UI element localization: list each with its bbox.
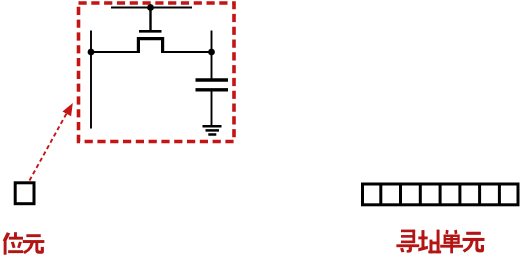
wire: word line (top horizontal) bbox=[111, 7, 192, 9]
glyph 位 bbox=[3, 232, 23, 255]
wire: storage node vertical bbox=[211, 31, 213, 79]
node: storage junction dot bbox=[208, 49, 215, 56]
bit cell square bbox=[15, 183, 34, 204]
capacitor C1 bottom plate bbox=[196, 88, 229, 91]
glyph 寻 bbox=[396, 230, 419, 253]
callout arrow shaft from bit cell to DRAM cell bbox=[30, 114, 67, 181]
glyph 元 bbox=[23, 234, 45, 254]
transistor Q1 gate bar bbox=[139, 30, 162, 33]
DRAM cell dashed enclosure box bbox=[79, 3, 235, 142]
node: bit line junction dot bbox=[88, 49, 95, 56]
label 寻址单元 (addressing unit) bbox=[396, 230, 484, 254]
callout arrow head bbox=[63, 103, 73, 116]
wire: drain to storage node bbox=[161, 51, 212, 53]
wire: capacitor to ground bbox=[211, 91, 213, 126]
label 位元 (bit cell) bbox=[3, 232, 45, 255]
node: word line junction dot bbox=[147, 4, 154, 11]
wire: source to bit line bbox=[91, 51, 140, 53]
ground bbox=[203, 126, 222, 134]
glyph 单 bbox=[440, 230, 463, 254]
glyph 址 bbox=[418, 230, 441, 254]
capacitor C1 top plate bbox=[196, 78, 229, 81]
wire: gate stem bbox=[149, 8, 151, 31]
transistor Q1 channel bump bbox=[138, 39, 162, 52]
glyph 元 (second) bbox=[463, 232, 485, 253]
addressing unit row of 8 cells bbox=[363, 184, 519, 205]
wire: bit line (left vertical) bbox=[90, 31, 92, 129]
